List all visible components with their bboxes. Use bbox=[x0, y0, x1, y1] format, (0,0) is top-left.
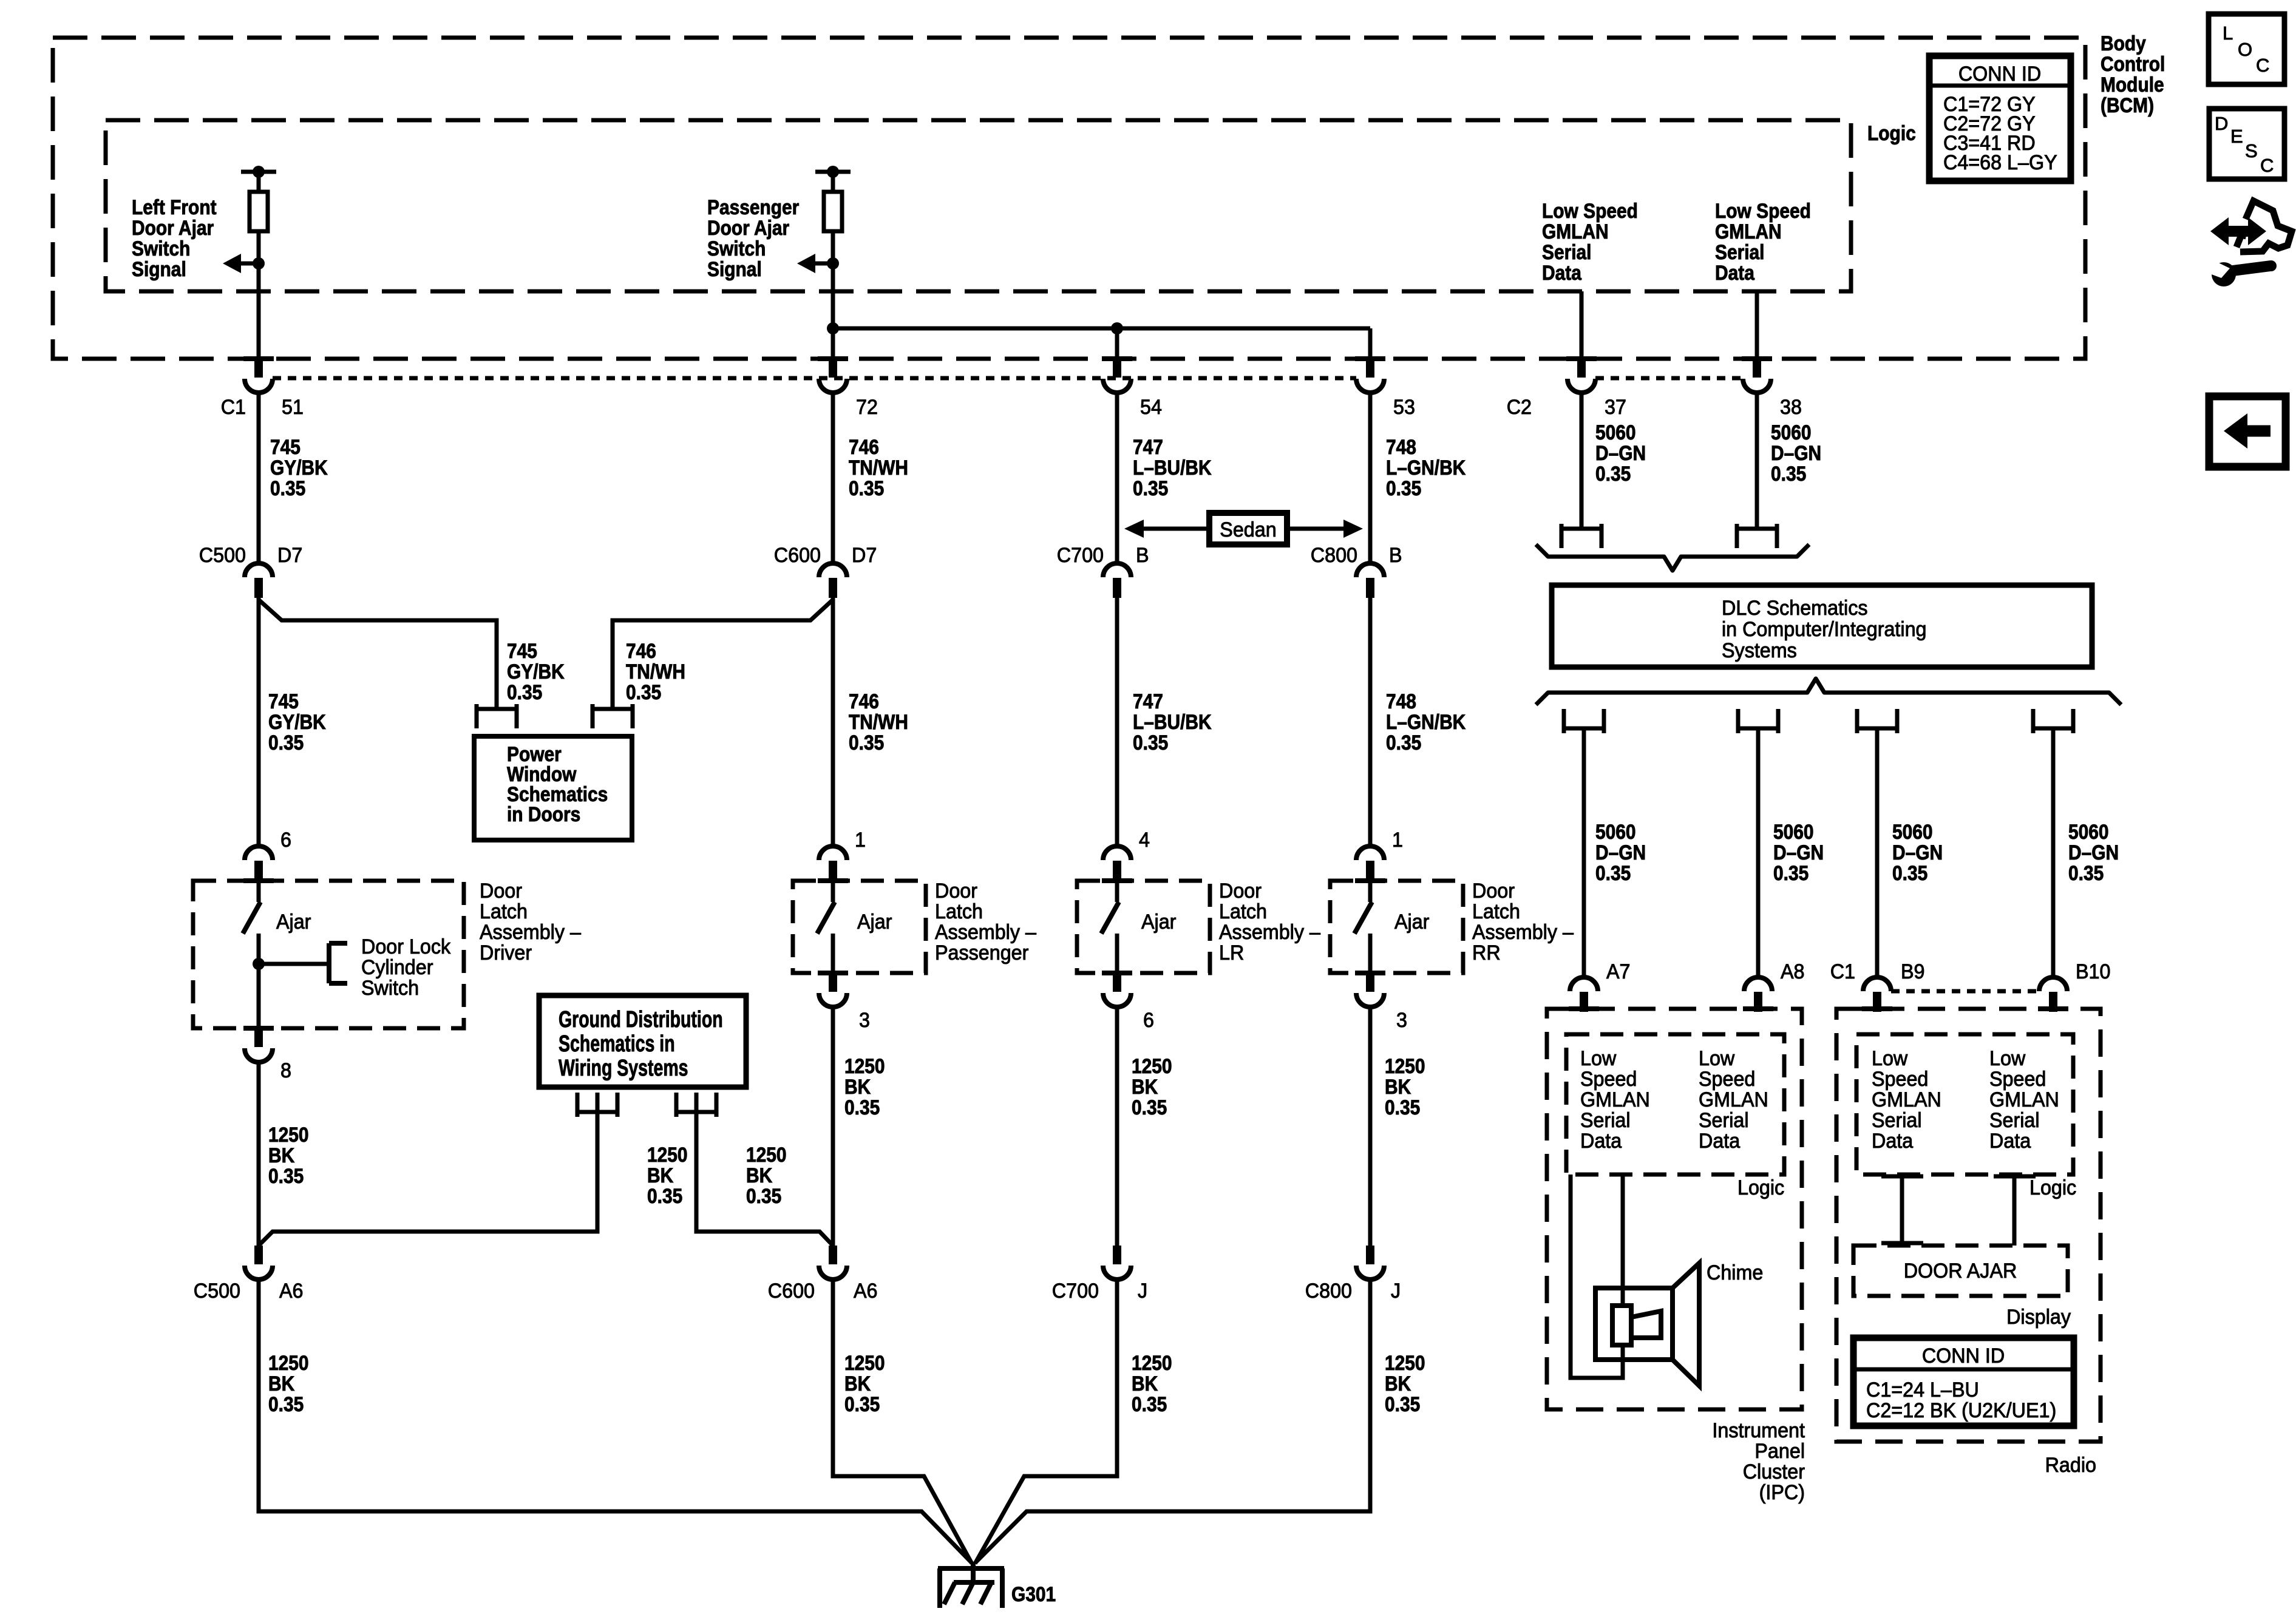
svg-text:0.35: 0.35 bbox=[849, 476, 884, 500]
fork terminal DLC to B10 bbox=[2033, 709, 2073, 733]
svg-text:54: 54 bbox=[1140, 396, 1162, 419]
svg-text:1250: 1250 bbox=[1385, 1054, 1425, 1077]
label 5060 D-GN 0.35 (B10) bbox=[2068, 820, 2119, 884]
svg-text:0.35: 0.35 bbox=[849, 731, 884, 754]
svg-text:Door Ajar: Door Ajar bbox=[132, 216, 214, 239]
label 1250 BK 0.35 (wire W3) bbox=[1132, 1054, 1172, 1119]
svg-text:GY/BK: GY/BK bbox=[507, 660, 565, 683]
Door Latch Assembly - LR dashed box bbox=[1077, 881, 1210, 973]
svg-text:L–GN/BK: L–GN/BK bbox=[1386, 456, 1466, 479]
svg-text:0.35: 0.35 bbox=[268, 1392, 304, 1415]
Door Latch Assembly - Driver dashed box bbox=[193, 881, 464, 1028]
Ajar switch bbox=[1101, 880, 1176, 973]
Radio logic inner dashed box bbox=[1856, 1034, 2073, 1175]
connector pin B9 bbox=[1862, 977, 1892, 1012]
svg-text:C800: C800 bbox=[1305, 1280, 1352, 1303]
svg-text:747: 747 bbox=[1133, 690, 1163, 713]
svg-text:0.35: 0.35 bbox=[1386, 476, 1421, 500]
svg-text:Sedan: Sedan bbox=[1220, 518, 1276, 541]
svg-text:3: 3 bbox=[859, 1009, 870, 1032]
label 5060 D-GN 0.35 (B9) bbox=[1892, 820, 1943, 884]
svg-text:0.35: 0.35 bbox=[1386, 731, 1421, 754]
svg-text:C600: C600 bbox=[768, 1280, 815, 1303]
svg-text:Door Lock: Door Lock bbox=[361, 935, 451, 958]
svg-text:Speed: Speed bbox=[1580, 1068, 1637, 1091]
label 746 TN/WH 0.35 (PW branch) bbox=[626, 639, 685, 703]
label 1250 BK 0.35 (wire W4) bbox=[1385, 1054, 1425, 1119]
connector C800 pin B bbox=[1356, 563, 1384, 598]
svg-text:Serial: Serial bbox=[1872, 1109, 1922, 1132]
svg-text:A8: A8 bbox=[1781, 960, 1805, 983]
svg-text:1250: 1250 bbox=[268, 1123, 309, 1146]
svg-text:Left Front: Left Front bbox=[132, 195, 217, 219]
svg-text:A6: A6 bbox=[279, 1280, 304, 1303]
Ajar switch bbox=[1354, 880, 1429, 973]
Radio dashed box bbox=[1836, 1009, 2101, 1442]
svg-text:Latch: Latch bbox=[480, 900, 528, 923]
signal arrow (Left Front) bbox=[223, 254, 265, 273]
svg-text:0.35: 0.35 bbox=[1132, 1096, 1167, 1119]
svg-text:Module: Module bbox=[2101, 73, 2164, 96]
signal arrow (Passenger) bbox=[797, 254, 839, 273]
svg-text:Chime: Chime bbox=[1707, 1261, 1763, 1284]
svg-text:1250: 1250 bbox=[1132, 1351, 1172, 1374]
wire label 747 L-BU/BK 0.35 (circuit from pin 54) bbox=[1133, 435, 1212, 500]
svg-text:C500: C500 bbox=[199, 544, 246, 567]
svg-text:GMLAN: GMLAN bbox=[1715, 220, 1782, 243]
svg-text:1250: 1250 bbox=[844, 1351, 885, 1374]
icon LOC box bbox=[2209, 14, 2284, 84]
connector pin C2 37 at BCM C1/C2 row bbox=[1566, 356, 1597, 393]
svg-text:Data: Data bbox=[1542, 261, 1582, 284]
wire W1 segment row1 to C500 bbox=[257, 392, 261, 563]
connector pin 38 at BCM C1/C2 row bbox=[1742, 356, 1772, 393]
svg-text:C2: C2 bbox=[1507, 396, 1532, 419]
svg-text:38: 38 bbox=[1780, 396, 1802, 419]
connector C600 pin D7 bbox=[819, 563, 847, 598]
BCM Logic inner dashed box bbox=[106, 120, 1851, 291]
labels Low Speed GMLAN Serial Data (BCM pins 37,38) bbox=[1542, 199, 1638, 284]
wire W2 to ground G301 bbox=[833, 1279, 972, 1564]
svg-text:Instrument: Instrument bbox=[1712, 1419, 1805, 1442]
svg-text:BK: BK bbox=[1385, 1075, 1411, 1098]
connector pin B10 bbox=[2038, 977, 2068, 1012]
svg-text:1250: 1250 bbox=[1132, 1054, 1172, 1077]
svg-text:CONN ID: CONN ID bbox=[1922, 1344, 2005, 1368]
svg-text:Schematics in: Schematics in bbox=[559, 1031, 675, 1057]
fork terminal wire 38 bbox=[1737, 524, 1777, 548]
svg-text:Serial: Serial bbox=[1715, 240, 1764, 263]
svg-text:0.35: 0.35 bbox=[270, 476, 305, 500]
icon back arrow box bbox=[2209, 396, 2286, 467]
connector pin 4 (door latch assembly input) bbox=[1102, 829, 1150, 883]
svg-text:D–GN: D–GN bbox=[2068, 841, 2119, 864]
svg-text:D: D bbox=[2215, 113, 2228, 134]
svg-text:BK: BK bbox=[647, 1164, 673, 1187]
connector pin C1 51 at BCM C1/C2 row bbox=[243, 356, 274, 393]
wire GD right fork to C600 A6 bbox=[696, 1093, 833, 1246]
svg-text:Logic: Logic bbox=[1867, 121, 1916, 144]
connector pin A7 bbox=[1569, 977, 1599, 1012]
svg-text:D7: D7 bbox=[277, 544, 302, 567]
svg-text:in Computer/Integrating: in Computer/Integrating bbox=[1722, 618, 1927, 641]
svg-text:0.35: 0.35 bbox=[844, 1392, 880, 1415]
svg-text:748: 748 bbox=[1386, 690, 1416, 713]
svg-text:L–BU/BK: L–BU/BK bbox=[1133, 456, 1212, 479]
svg-text:Data: Data bbox=[1872, 1130, 1914, 1153]
label Door Latch Assembly RR bbox=[1472, 880, 1574, 964]
connector row C1/C2 dotted harness line bbox=[273, 376, 1743, 381]
wire 5060 to A7 bbox=[1582, 728, 1586, 977]
label 1250 BK 0.35 (GD right) bbox=[746, 1143, 787, 1207]
IPC Logic label bbox=[1737, 1176, 1784, 1199]
resistor (Passenger door ajar pull-up) with top bar bbox=[815, 166, 851, 231]
svg-text:(IPC): (IPC) bbox=[1759, 1481, 1805, 1504]
svg-text:BK: BK bbox=[844, 1075, 871, 1098]
svg-text:72: 72 bbox=[856, 396, 878, 419]
label 5060 D-GN 0.35 (A8) bbox=[1773, 820, 1824, 884]
svg-text:6: 6 bbox=[1143, 1009, 1154, 1032]
svg-text:0.35: 0.35 bbox=[1892, 861, 1927, 884]
wire W2 segment row1 to C600 bbox=[831, 392, 835, 563]
svg-text:Logic: Logic bbox=[1737, 1176, 1784, 1199]
svg-text:5060: 5060 bbox=[1773, 820, 1814, 843]
label Door Latch Assembly Passenger bbox=[935, 880, 1036, 964]
svg-text:746: 746 bbox=[626, 639, 656, 662]
svg-text:Data: Data bbox=[1989, 1130, 2031, 1153]
wire W5 row1 to fork bbox=[1580, 392, 1584, 529]
svg-text:DLC Schematics: DLC Schematics bbox=[1722, 597, 1868, 620]
svg-text:5060: 5060 bbox=[1595, 421, 1636, 444]
svg-text:0.35: 0.35 bbox=[844, 1096, 880, 1119]
connector pin 6 (latch output) bbox=[1102, 971, 1154, 1032]
wire W6 row1 to fork bbox=[1755, 392, 1759, 529]
Radio GMLAN label left bbox=[1872, 1047, 1941, 1153]
svg-text:5060: 5060 bbox=[1892, 820, 1933, 843]
connector pin 3 (latch output) bbox=[818, 971, 870, 1032]
svg-text:1: 1 bbox=[1392, 829, 1403, 852]
label Instrument Panel Cluster (IPC) bbox=[1712, 1419, 1805, 1504]
Ajar switch bbox=[817, 880, 892, 973]
label Door Latch Assembly Driver bbox=[480, 880, 581, 964]
label 746 TN/WH 0.35 (wire W2) bbox=[849, 690, 908, 754]
svg-text:0.35: 0.35 bbox=[1132, 1392, 1167, 1415]
wire W1 inside BCM bbox=[257, 231, 261, 359]
svg-text:Door: Door bbox=[1219, 880, 1262, 903]
wire branch W1 to Power Window fork bbox=[259, 597, 497, 846]
fork terminal DLC to A7 bbox=[1564, 709, 1604, 733]
svg-text:Panel: Panel bbox=[1754, 1440, 1805, 1463]
wire label 5060 D-GN 0.35 (pin 37) bbox=[1595, 421, 1646, 485]
wire GD left fork to C500 A6 bbox=[259, 1093, 597, 1246]
Instrument Panel Cluster dashed box bbox=[1547, 1009, 1802, 1409]
svg-text:(BCM): (BCM) bbox=[2101, 93, 2154, 117]
svg-text:Systems: Systems bbox=[1722, 639, 1797, 662]
svg-text:C1: C1 bbox=[1830, 960, 1855, 983]
svg-text:DOOR AJAR: DOOR AJAR bbox=[1904, 1259, 2017, 1283]
svg-text:Assembly –: Assembly – bbox=[1219, 921, 1320, 944]
label 748 L-GN/BK 0.35 (wire W4) bbox=[1386, 690, 1466, 754]
wire W1 inside driver latch bbox=[257, 934, 261, 1028]
svg-text:0.35: 0.35 bbox=[2068, 861, 2104, 884]
svg-text:51: 51 bbox=[282, 396, 304, 419]
svg-text:Ajar: Ajar bbox=[1394, 910, 1429, 934]
connector C700 pin J (lower) bbox=[1052, 1246, 1147, 1303]
svg-text:A7: A7 bbox=[1606, 960, 1631, 983]
label Display bbox=[2006, 1306, 2071, 1329]
svg-text:Serial: Serial bbox=[1989, 1109, 2040, 1132]
svg-text:BK: BK bbox=[1132, 1372, 1158, 1395]
svg-text:J: J bbox=[1391, 1280, 1401, 1303]
label Radio bbox=[2045, 1454, 2096, 1477]
svg-text:Speed: Speed bbox=[1699, 1068, 1755, 1091]
svg-text:0.35: 0.35 bbox=[746, 1184, 781, 1207]
svg-text:Ground Distribution: Ground Distribution bbox=[559, 1007, 723, 1032]
Radio CONN ID table bbox=[1853, 1338, 2074, 1426]
svg-text:O: O bbox=[2238, 39, 2252, 60]
svg-text:0.35: 0.35 bbox=[268, 731, 304, 754]
wire label 745 GY/BK 0.35 (circuit from pin 51) bbox=[270, 435, 328, 500]
svg-text:Data: Data bbox=[1699, 1130, 1741, 1153]
svg-text:RR: RR bbox=[1472, 941, 1501, 964]
svg-text:Switch: Switch bbox=[707, 237, 766, 260]
label 1250 BK 0.35 (wire W4 bottom) bbox=[1385, 1351, 1425, 1415]
fork terminal to Power Window schematics (left) bbox=[477, 704, 517, 728]
wire branch W2 to Power Window fork bbox=[613, 597, 833, 846]
svg-text:Data: Data bbox=[1580, 1130, 1622, 1153]
svg-text:GMLAN: GMLAN bbox=[1989, 1088, 2059, 1111]
svg-text:0.35: 0.35 bbox=[1595, 462, 1631, 485]
svg-text:BK: BK bbox=[268, 1144, 294, 1167]
BCM CONN ID table bbox=[1929, 56, 2071, 181]
svg-text:53: 53 bbox=[1393, 396, 1415, 419]
svg-text:Door: Door bbox=[480, 880, 522, 903]
Sedan option box with arrows bbox=[1124, 513, 1363, 544]
svg-text:BK: BK bbox=[1132, 1075, 1158, 1098]
Door Lock Cylinder Switch bracket bbox=[253, 935, 451, 1000]
svg-text:0.35: 0.35 bbox=[1133, 476, 1168, 500]
svg-text:Low: Low bbox=[1872, 1047, 1908, 1070]
DOOR AJAR display dashed box bbox=[1853, 1246, 2068, 1296]
svg-text:8: 8 bbox=[280, 1059, 291, 1082]
Ajar switch bbox=[243, 880, 311, 973]
label 745 GY/BK 0.35 (wire W1) bbox=[268, 690, 326, 754]
wire 5060 to A8 bbox=[1756, 728, 1761, 977]
svg-text:Latch: Latch bbox=[935, 900, 983, 923]
Radio GMLAN label right bbox=[1989, 1047, 2059, 1153]
connector pin 72 at BCM C1/C2 row bbox=[818, 356, 848, 393]
connector pin 1 (door latch assembly input) bbox=[818, 829, 866, 883]
wire 5060 to B10 bbox=[2051, 728, 2056, 977]
ground symbol G301 bbox=[938, 1562, 1056, 1608]
svg-text:L–BU/BK: L–BU/BK bbox=[1133, 710, 1212, 733]
connector C500 pin A6 (lower) bbox=[194, 1246, 304, 1303]
svg-text:4: 4 bbox=[1139, 829, 1150, 852]
svg-text:LR: LR bbox=[1219, 941, 1244, 964]
connector C800 pin J (lower) bbox=[1305, 1246, 1401, 1303]
connector pin 8 (driver latch output) bbox=[243, 1026, 291, 1082]
svg-text:GMLAN: GMLAN bbox=[1872, 1088, 1941, 1111]
svg-text:C700: C700 bbox=[1052, 1280, 1099, 1303]
svg-text:TN/WH: TN/WH bbox=[849, 456, 908, 479]
svg-text:Door: Door bbox=[1472, 880, 1515, 903]
wire label 5060 D-GN 0.35 (pin 38) bbox=[1771, 421, 1821, 485]
svg-text:745: 745 bbox=[270, 435, 301, 458]
svg-text:Serial: Serial bbox=[1699, 1109, 1749, 1132]
svg-text:L: L bbox=[2223, 22, 2233, 44]
svg-text:Assembly –: Assembly – bbox=[935, 921, 1036, 944]
svg-text:Ajar: Ajar bbox=[857, 910, 892, 934]
svg-text:Serial: Serial bbox=[1580, 1109, 1631, 1132]
svg-text:Latch: Latch bbox=[1219, 900, 1267, 923]
svg-text:Switch: Switch bbox=[132, 237, 190, 260]
chime wiring bbox=[1571, 1175, 1623, 1378]
svg-text:BK: BK bbox=[268, 1372, 294, 1395]
svg-text:L–GN/BK: L–GN/BK bbox=[1386, 710, 1466, 733]
label Logic (BCM) bbox=[1867, 121, 1916, 144]
svg-text:D–GN: D–GN bbox=[1773, 841, 1824, 864]
label Left Front Door Ajar Switch Signal bbox=[132, 195, 217, 280]
svg-text:D–GN: D–GN bbox=[1595, 841, 1646, 864]
icon DESC box bbox=[2209, 109, 2284, 179]
svg-text:Assembly –: Assembly – bbox=[480, 921, 581, 944]
svg-text:745: 745 bbox=[268, 690, 299, 713]
connector pin 1 (door latch assembly input) bbox=[1355, 829, 1403, 883]
svg-text:C1=24 L–BU: C1=24 L–BU bbox=[1866, 1378, 1979, 1402]
svg-text:S: S bbox=[2245, 140, 2258, 161]
fork terminal from ground distribution (right) bbox=[676, 1093, 716, 1117]
Door Latch Assembly - RR dashed box bbox=[1330, 881, 1463, 973]
svg-text:Low: Low bbox=[1989, 1047, 2026, 1070]
fork terminal DLC to B9 bbox=[1857, 709, 1897, 733]
fork terminal wire 37 bbox=[1561, 524, 1601, 548]
connector pin 6 (door latch assembly input) bbox=[243, 829, 291, 883]
wire W3 vertical to pin 4 bbox=[1115, 597, 1119, 846]
svg-text:Low: Low bbox=[1580, 1047, 1617, 1070]
icon hand with double arrow and wrench bbox=[2205, 201, 2292, 286]
svg-text:D–GN: D–GN bbox=[1892, 841, 1943, 864]
svg-text:0.35: 0.35 bbox=[268, 1164, 304, 1187]
svg-text:Data: Data bbox=[1715, 261, 1755, 284]
svg-text:Cluster: Cluster bbox=[1743, 1460, 1805, 1483]
svg-text:5060: 5060 bbox=[2068, 820, 2109, 843]
connector pin 53 at BCM C1/C2 row bbox=[1355, 356, 1385, 393]
Ground Distribution Schematics box bbox=[539, 995, 746, 1087]
label Door Latch Assembly LR bbox=[1219, 880, 1320, 964]
svg-text:Serial: Serial bbox=[1542, 240, 1591, 263]
connector pin 54 at BCM C1/C2 row bbox=[1102, 356, 1132, 393]
svg-text:Body: Body bbox=[2101, 32, 2146, 55]
svg-text:Low Speed: Low Speed bbox=[1715, 199, 1811, 222]
wire label 748 L-GN/BK 0.35 (circuit from pin 53) bbox=[1386, 435, 1466, 500]
wire W4 pin3 to C800 J bbox=[1368, 1006, 1373, 1246]
svg-text:0.35: 0.35 bbox=[1771, 462, 1806, 485]
svg-text:Wiring Systems: Wiring Systems bbox=[559, 1056, 688, 1081]
chime speaker bbox=[1595, 1263, 1699, 1386]
svg-text:D–GN: D–GN bbox=[1595, 441, 1646, 464]
wire 5060 to B9 bbox=[1875, 728, 1880, 977]
BCM internal bus wire joining pins 72,54,53 bbox=[827, 322, 1370, 359]
svg-text:B: B bbox=[1136, 544, 1149, 567]
svg-text:0.35: 0.35 bbox=[647, 1184, 682, 1207]
label 5060 D-GN 0.35 (A7) bbox=[1595, 820, 1646, 884]
labels connector row C500/C600/C700/C800 bbox=[199, 544, 1402, 567]
svg-text:C500: C500 bbox=[194, 1280, 240, 1303]
svg-text:D–GN: D–GN bbox=[1771, 441, 1821, 464]
label 1250 BK 0.35 (wire W1 below pin 8) bbox=[268, 1123, 309, 1187]
label 1250 BK 0.35 (wire W1 bottom) bbox=[268, 1351, 309, 1415]
svg-text:GMLAN: GMLAN bbox=[1580, 1088, 1650, 1111]
svg-text:C800: C800 bbox=[1311, 544, 1357, 567]
svg-text:Speed: Speed bbox=[1872, 1068, 1928, 1091]
svg-text:Signal: Signal bbox=[132, 257, 186, 280]
wire label 746 TN/WH 0.35 (circuit from pin 72) bbox=[849, 435, 908, 500]
svg-text:Control: Control bbox=[2101, 52, 2165, 75]
svg-text:C700: C700 bbox=[1057, 544, 1104, 567]
svg-text:Assembly –: Assembly – bbox=[1472, 921, 1574, 944]
svg-text:Switch: Switch bbox=[361, 977, 419, 1000]
svg-text:in Doors: in Doors bbox=[507, 802, 580, 825]
Body Control Module (BCM) outer dashed box bbox=[53, 38, 2085, 359]
label Passenger Door Ajar Switch Signal bbox=[707, 195, 799, 280]
connector C500 pin D7 bbox=[245, 563, 273, 598]
svg-text:Ajar: Ajar bbox=[1141, 910, 1176, 934]
fork terminal from ground distribution (left) bbox=[577, 1093, 617, 1117]
svg-text:Door: Door bbox=[935, 880, 977, 903]
wire W2 pin3 to C600 A6 bbox=[831, 1006, 835, 1246]
svg-text:C: C bbox=[2256, 55, 2269, 76]
connector C600 pin A6 (lower) bbox=[768, 1246, 878, 1303]
pin labels A7 A8 C1 B9 B10 bbox=[1606, 960, 2110, 983]
svg-text:Door Ajar: Door Ajar bbox=[707, 216, 789, 239]
svg-text:C4=68 L–GY: C4=68 L–GY bbox=[1943, 151, 2057, 174]
svg-text:0.35: 0.35 bbox=[1385, 1096, 1420, 1119]
svg-text:0.35: 0.35 bbox=[1773, 861, 1809, 884]
label 1250 BK 0.35 (wire W2 bottom) bbox=[844, 1351, 885, 1415]
svg-text:3: 3 bbox=[1396, 1009, 1407, 1032]
fork terminal to Power Window schematics (right) bbox=[593, 704, 633, 728]
wire W4 to ground G301 bbox=[976, 1279, 1370, 1562]
radio C1 connector dotted line bbox=[1891, 989, 2039, 994]
Door Latch Assembly - Passenger dashed box bbox=[793, 881, 926, 973]
svg-text:Signal: Signal bbox=[707, 257, 762, 280]
wire W4 vertical to pin 1 bbox=[1368, 597, 1373, 846]
IPC logic inner dashed box bbox=[1566, 1034, 1784, 1175]
svg-text:Low: Low bbox=[1699, 1047, 1735, 1070]
IPC GMLAN label left bbox=[1580, 1047, 1650, 1153]
svg-text:GMLAN: GMLAN bbox=[1542, 220, 1609, 243]
svg-text:1250: 1250 bbox=[746, 1143, 787, 1166]
DLC Schematics in Computer/Integrating Systems box bbox=[1552, 585, 2092, 667]
svg-text:C1: C1 bbox=[221, 396, 246, 419]
wire W3 to ground G301 bbox=[975, 1279, 1117, 1564]
svg-text:5060: 5060 bbox=[1771, 421, 1812, 444]
svg-text:B10: B10 bbox=[2076, 960, 2110, 983]
svg-text:Passenger: Passenger bbox=[707, 195, 799, 219]
label Body Control Module (BCM) bbox=[2101, 32, 2165, 117]
svg-text:GY/BK: GY/BK bbox=[268, 710, 326, 733]
svg-text:1250: 1250 bbox=[647, 1143, 688, 1166]
svg-text:Display: Display bbox=[2006, 1306, 2071, 1329]
brace gathering 37/38 to DLC bbox=[1536, 544, 1809, 571]
svg-text:Cylinder: Cylinder bbox=[361, 956, 433, 979]
wire W3 pin6 to C700 J bbox=[1115, 1006, 1119, 1246]
svg-text:Driver: Driver bbox=[480, 941, 532, 964]
svg-text:0.35: 0.35 bbox=[507, 680, 542, 703]
svg-text:A6: A6 bbox=[854, 1280, 878, 1303]
label 747 L-BU/BK 0.35 (wire W3) bbox=[1133, 690, 1212, 754]
svg-text:37: 37 bbox=[1605, 396, 1626, 419]
